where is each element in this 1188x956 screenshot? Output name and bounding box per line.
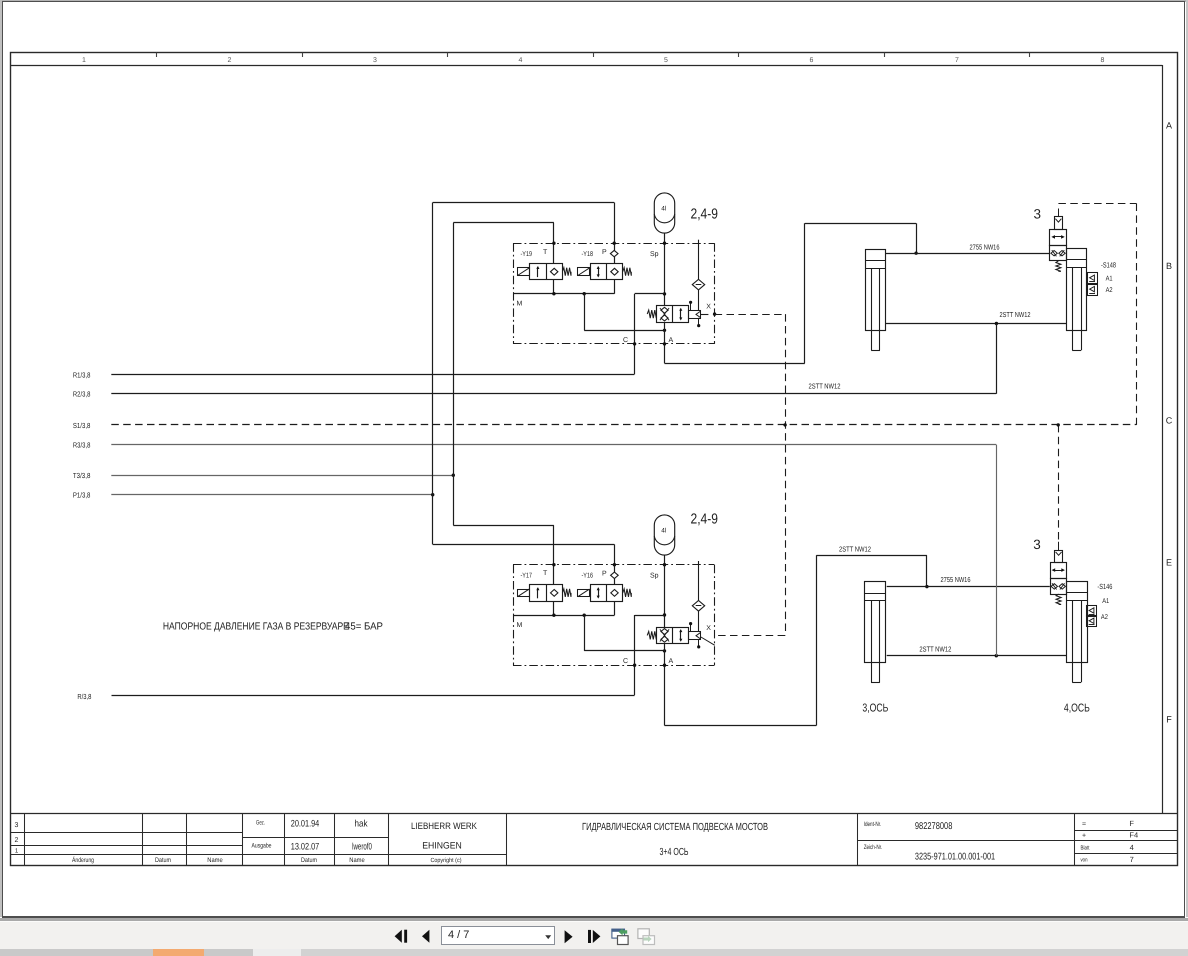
svg-text:3+4 ОСЬ: 3+4 ОСЬ bbox=[660, 847, 689, 858]
svg-text:Änderung: Änderung bbox=[72, 856, 94, 864]
svg-text:2,4-9: 2,4-9 bbox=[691, 512, 719, 528]
svg-text:X: X bbox=[706, 304, 711, 311]
svg-text:B: B bbox=[1166, 261, 1172, 271]
svg-text:R3/3,8: R3/3,8 bbox=[73, 441, 91, 450]
svg-text:4l: 4l bbox=[661, 527, 667, 534]
svg-text:2,4-9: 2,4-9 bbox=[691, 207, 719, 223]
svg-text:Name: Name bbox=[207, 857, 223, 864]
svg-text:НАПОРНОЕ ДАВЛЕНИЕ ГАЗА В РЕЗЕР: НАПОРНОЕ ДАВЛЕНИЕ ГАЗА В РЕЗЕРВУАРЕ bbox=[163, 622, 349, 633]
svg-text:F4: F4 bbox=[1129, 831, 1138, 840]
svg-text:5: 5 bbox=[664, 57, 668, 64]
svg-text:C: C bbox=[623, 658, 628, 665]
svg-text:F: F bbox=[1166, 715, 1172, 725]
svg-text:3: 3 bbox=[15, 822, 19, 829]
svg-text:Gez.: Gez. bbox=[256, 820, 265, 827]
svg-text:20.01.94: 20.01.94 bbox=[291, 819, 320, 830]
svg-text:Ident-Nr.: Ident-Nr. bbox=[864, 821, 882, 828]
svg-text:3: 3 bbox=[1033, 537, 1041, 552]
svg-text:1: 1 bbox=[15, 848, 19, 855]
svg-text:3,ОСЬ: 3,ОСЬ bbox=[862, 703, 888, 715]
svg-text:2755 NW16: 2755 NW16 bbox=[941, 575, 971, 584]
svg-text:-Y17: -Y17 bbox=[521, 572, 533, 579]
svg-text:A2: A2 bbox=[1106, 287, 1113, 294]
svg-text:2: 2 bbox=[15, 837, 19, 844]
svg-text:P: P bbox=[602, 570, 607, 577]
svg-text:S1/3,8: S1/3,8 bbox=[73, 421, 91, 430]
svg-text:-S148: -S148 bbox=[1101, 261, 1116, 270]
svg-text:Datum: Datum bbox=[155, 857, 171, 864]
svg-text:45= БАР: 45= БАР bbox=[345, 622, 383, 633]
svg-text:A2: A2 bbox=[1101, 614, 1108, 621]
svg-text:C: C bbox=[1166, 416, 1173, 426]
svg-text:A: A bbox=[669, 658, 674, 665]
svg-text:+: + bbox=[1082, 833, 1086, 840]
svg-text:4,ОСЬ: 4,ОСЬ bbox=[1064, 703, 1090, 715]
svg-text:von: von bbox=[1081, 858, 1088, 864]
svg-text:982278008: 982278008 bbox=[915, 821, 953, 832]
svg-text:7: 7 bbox=[1130, 855, 1134, 864]
svg-text:Sp: Sp bbox=[650, 572, 659, 579]
svg-text:7: 7 bbox=[955, 57, 959, 64]
svg-text:4: 4 bbox=[1130, 843, 1134, 852]
svg-text:E: E bbox=[1166, 558, 1172, 568]
svg-text:R/3,8: R/3,8 bbox=[77, 692, 91, 701]
svg-text:ГИДРАВЛИЧЕСКАЯ СИСТЕМА ПОДВЕСК: ГИДРАВЛИЧЕСКАЯ СИСТЕМА ПОДВЕСКА МОСТОВ bbox=[582, 822, 768, 833]
svg-text:hak: hak bbox=[355, 819, 368, 830]
svg-text:Name: Name bbox=[349, 857, 365, 864]
svg-text:3: 3 bbox=[1034, 207, 1042, 222]
svg-text:EHINGEN: EHINGEN bbox=[422, 841, 462, 851]
svg-text:2STT NW12: 2STT NW12 bbox=[919, 644, 951, 653]
svg-text:-Y16: -Y16 bbox=[582, 572, 594, 579]
svg-text:Sp: Sp bbox=[650, 251, 659, 258]
svg-text:P1/3,8: P1/3,8 bbox=[73, 491, 91, 500]
svg-text:13.02.07: 13.02.07 bbox=[291, 842, 320, 853]
svg-text:2: 2 bbox=[228, 57, 232, 64]
svg-text:3235-971.01.00.001-001: 3235-971.01.00.001-001 bbox=[915, 852, 995, 863]
svg-text:2STT NW12: 2STT NW12 bbox=[1000, 310, 1031, 319]
svg-text:T: T bbox=[543, 249, 548, 256]
svg-text:LIEBHERR WERK: LIEBHERR WERK bbox=[411, 821, 478, 831]
svg-text:X: X bbox=[706, 625, 711, 632]
svg-text:T3/3,8: T3/3,8 bbox=[73, 471, 91, 480]
svg-text:A: A bbox=[669, 337, 674, 344]
svg-text:2STT NW12: 2STT NW12 bbox=[839, 545, 871, 554]
svg-text:Copyright (c): Copyright (c) bbox=[431, 857, 462, 864]
svg-text:3: 3 bbox=[373, 57, 377, 64]
svg-text:-S146: -S146 bbox=[1097, 582, 1112, 591]
svg-text:C: C bbox=[623, 337, 628, 344]
svg-text:Blatt: Blatt bbox=[1081, 845, 1090, 852]
svg-text:A1: A1 bbox=[1102, 598, 1109, 605]
svg-text:A: A bbox=[1166, 121, 1172, 131]
svg-text:8: 8 bbox=[1101, 57, 1105, 64]
svg-text:=: = bbox=[1082, 821, 1086, 828]
svg-text:A1: A1 bbox=[1106, 276, 1113, 283]
svg-text:F: F bbox=[1129, 819, 1134, 828]
svg-text:4: 4 bbox=[519, 57, 523, 64]
svg-text:Ausgabe: Ausgabe bbox=[252, 843, 272, 850]
svg-text:2STT NW12: 2STT NW12 bbox=[809, 381, 841, 390]
svg-text:P: P bbox=[602, 249, 607, 256]
svg-text:1: 1 bbox=[82, 57, 86, 64]
svg-text:2755 NW16: 2755 NW16 bbox=[970, 242, 1000, 251]
svg-text:lwerof0: lwerof0 bbox=[352, 842, 372, 853]
svg-text:M: M bbox=[517, 301, 523, 308]
svg-text:T: T bbox=[543, 570, 548, 577]
svg-text:4l: 4l bbox=[661, 205, 667, 212]
svg-text:-Y19: -Y19 bbox=[521, 251, 533, 258]
svg-text:6: 6 bbox=[810, 57, 814, 64]
svg-text:Datum: Datum bbox=[301, 857, 317, 864]
svg-text:M: M bbox=[517, 622, 523, 629]
svg-text:Zeich-Nr.: Zeich-Nr. bbox=[864, 844, 883, 851]
svg-text:R2/3,8: R2/3,8 bbox=[73, 390, 91, 399]
svg-text:-Y18: -Y18 bbox=[582, 251, 594, 258]
svg-text:R1/3,8: R1/3,8 bbox=[73, 370, 91, 379]
